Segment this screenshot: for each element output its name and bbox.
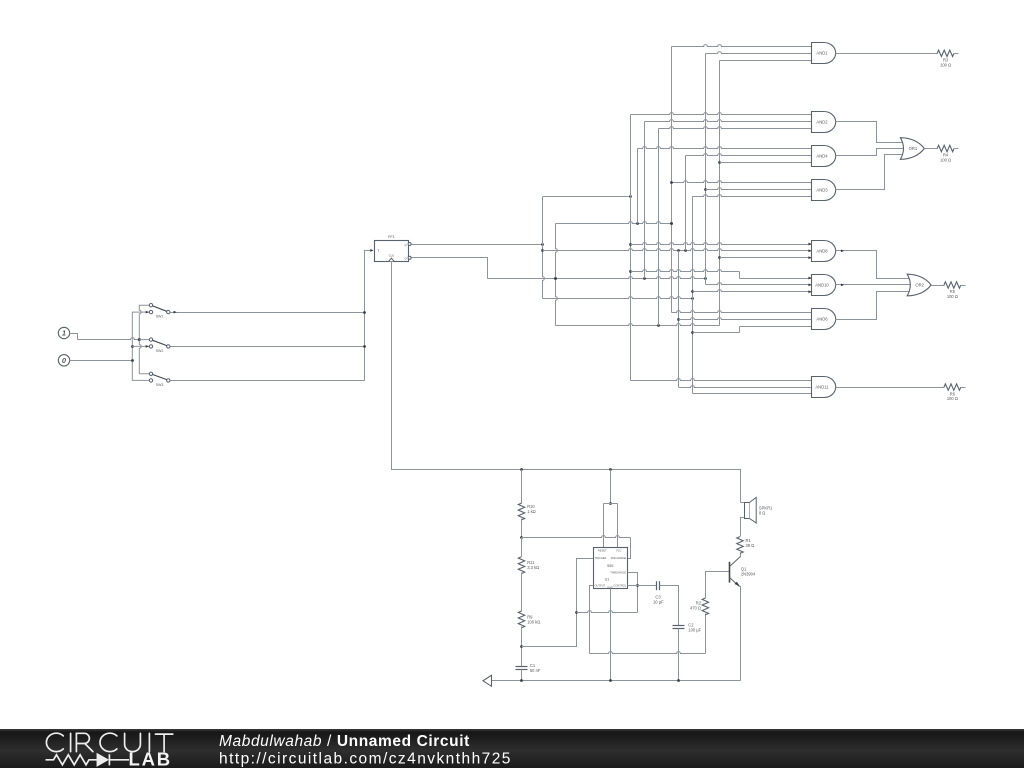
wire AND1 mid input row xyxy=(706,52,812,54)
wire row 325.9 (Q-bar low feed) xyxy=(556,324,720,326)
resistor R5 xyxy=(944,282,961,288)
wire AND4 bottom input row xyxy=(720,162,812,164)
resistor R2 xyxy=(702,598,708,615)
wire AND11 output to R6 xyxy=(836,387,945,389)
wire Q1 emitter down to ground rail xyxy=(740,587,741,681)
AND gate AND11 xyxy=(812,377,836,398)
wire AND8 mid input arrow xyxy=(808,249,811,252)
svg-text:555: 555 xyxy=(607,564,613,568)
wire Q-bar output of FF1 jog down xyxy=(412,258,488,279)
wire AND10 top input row (jogged) xyxy=(631,270,740,272)
svg-text:TRIGGER: TRIGGER xyxy=(595,556,607,560)
AND gate AND3 xyxy=(812,180,836,201)
CircuitLab logo resistor-diode glyph xyxy=(46,754,130,765)
svg-text:CONTROL: CONTROL xyxy=(614,584,627,588)
resistor R9 xyxy=(521,573,523,612)
wire column 678.6 (AND6 mid / AND11 mid feed) xyxy=(678,251,680,388)
svg-text:LAB: LAB xyxy=(129,748,172,768)
wire row 250.8 (Q to AND8 mid input) xyxy=(543,249,812,251)
wire AND1 bottom input row xyxy=(720,60,812,62)
footer bar xyxy=(0,729,1024,768)
resistor R1 xyxy=(737,537,743,554)
resistor R4 xyxy=(937,145,954,151)
svg-text:AND11: AND11 xyxy=(815,385,829,390)
transistor Q1 base bar xyxy=(729,562,731,583)
svg-text:OUTPUT: OUTPUT xyxy=(595,584,606,588)
svg-text:SW1: SW1 xyxy=(156,315,164,319)
wire row 223.4 (Q-bar top feed) xyxy=(556,222,672,224)
transistor Q1 collector stroke xyxy=(730,557,741,567)
svg-text:1 kΩ: 1 kΩ xyxy=(527,509,536,514)
wire 555 THRESHOLD drop xyxy=(628,573,638,613)
node 0 (logic-low terminal) xyxy=(58,355,69,366)
wire column 685.4 (AND4 mid feed) xyxy=(685,156,687,251)
FF1 clock wedge xyxy=(389,258,394,261)
wire AND6 top input row xyxy=(672,311,812,313)
wire AND3 top input row xyxy=(672,181,812,183)
svg-text:AND3: AND3 xyxy=(816,188,828,193)
wire AND10 mid input row xyxy=(706,283,812,285)
wire AND3 mid input row xyxy=(706,188,812,190)
svg-text:SW3: SW3 xyxy=(156,383,164,387)
svg-text:100 Ω: 100 Ω xyxy=(940,158,951,163)
wire SW2 output row xyxy=(171,346,365,348)
svg-text:10 µF: 10 µF xyxy=(653,599,664,604)
wire SW3 output row xyxy=(171,380,365,382)
wire AND6 bottom input row (jogged) xyxy=(693,332,740,334)
resistor R3 xyxy=(937,50,954,56)
AND gate AND4 xyxy=(812,146,836,167)
wire 555 OUTPUT down and east to R2 xyxy=(590,586,594,654)
svg-text:100 Ω: 100 Ω xyxy=(940,62,951,67)
wire AND3 output to OR1 bottom input xyxy=(836,155,906,190)
wire Q output of FF1 to column 542 xyxy=(412,244,543,246)
speaker SPKR1 xyxy=(741,502,745,504)
svg-text:3.3 kΩ: 3.3 kΩ xyxy=(527,565,539,570)
svg-text:SW2: SW2 xyxy=(156,349,164,353)
wire column 658.1 (AND2 bottom feed) xyxy=(658,129,660,326)
svg-text:50 nF: 50 nF xyxy=(530,668,541,673)
wire row 298 (Q low feed) xyxy=(543,297,693,299)
wire C1 bottom to ground rail xyxy=(521,670,523,681)
switch SW3 (SPDT) xyxy=(149,372,152,375)
wire 0-bus vertical (switch bottom contacts) xyxy=(132,312,149,380)
svg-text:http://circuitlab.com/cz4nvknt: http://circuitlab.com/cz4nvknthh725 xyxy=(219,750,512,767)
wire row to 555 DISCHARGE (via right drop) xyxy=(522,536,631,538)
svg-text:AND4: AND4 xyxy=(816,154,828,159)
wire column 555.4 (Q-bar riser) xyxy=(556,224,558,326)
wire R9 bottom to C1 node xyxy=(521,627,523,667)
wire AND2 top input row xyxy=(631,113,812,115)
wire AND4 top input row xyxy=(638,147,812,149)
svg-text:OR1: OR1 xyxy=(909,146,918,151)
wire Q-bar row east to column 705.9 xyxy=(488,277,706,279)
svg-text:100 Ω: 100 Ω xyxy=(947,396,958,401)
wire column 637.6 (AND4 top feed) xyxy=(637,149,639,224)
wire AND10 bottom input row xyxy=(693,290,812,292)
svg-text:AND2: AND2 xyxy=(816,120,828,125)
svg-text:1: 1 xyxy=(62,329,66,338)
AND gate AND1 xyxy=(812,43,836,64)
resistor R11 xyxy=(521,538,523,557)
svg-text:CLK: CLK xyxy=(389,254,395,258)
wire AND8 bottom input row xyxy=(720,257,812,259)
wire column 644.4 (AND2 mid feed) xyxy=(644,122,646,279)
switch SW2 (SPDT) xyxy=(149,338,152,341)
svg-text:AND10: AND10 xyxy=(815,283,829,288)
svg-text:FF1: FF1 xyxy=(388,235,395,239)
node 1 (logic-high terminal) xyxy=(58,327,69,338)
wire 1-bus vertical (switch top contacts) xyxy=(139,305,149,374)
wire AND1 top input row xyxy=(672,45,812,47)
OR gate OR1 xyxy=(900,138,924,160)
OR gate OR2 xyxy=(907,274,931,296)
wire AND1 output to R3 xyxy=(836,53,938,55)
wire 555 CONTROL to C3 xyxy=(628,585,657,587)
wire column 542 (Q riser) xyxy=(543,197,545,299)
wire R10 top lead xyxy=(521,470,523,504)
wire column 719.6 (AND1 bottom feed) xyxy=(719,61,721,326)
wire AND6 mid input row xyxy=(679,318,812,320)
wire Q1 collector to R1 xyxy=(740,553,742,557)
svg-text:DISCHARGE: DISCHARGE xyxy=(611,556,627,560)
wire AND8 output to OR2 top input xyxy=(836,251,913,279)
svg-text:U1: U1 xyxy=(605,577,610,581)
wire column 705.9 (AND1 mid to AND10 mid) xyxy=(705,54,707,285)
wire OR1 output to R4 xyxy=(925,148,938,150)
wire AND6 output to OR2 bottom input xyxy=(836,292,913,320)
FF1 Q-bar output pin circle xyxy=(408,256,411,259)
svg-text:Mabdulwahab / Unnamed Circuit: Mabdulwahab / Unnamed Circuit xyxy=(219,733,470,750)
AND gate AND6 xyxy=(812,309,836,330)
wire AND2 output to OR1 top input xyxy=(836,122,906,143)
wire R1 top to speaker bottom lead xyxy=(741,518,745,537)
svg-text:100 kΩ: 100 kΩ xyxy=(527,620,540,625)
wire R10 bottom to node xyxy=(521,519,523,538)
resistor R10 xyxy=(518,503,524,520)
svg-text:8 Ω: 8 Ω xyxy=(759,511,765,516)
ground rail xyxy=(492,680,741,682)
wire AND3 bottom input row xyxy=(693,195,812,197)
FF1 Q output pin circle xyxy=(408,243,411,246)
wire Q upper row to column 630.8 xyxy=(543,196,631,198)
svg-text:AND1: AND1 xyxy=(816,51,828,56)
wire R2 top to Q1 base xyxy=(706,572,730,599)
wire AND2 mid input row xyxy=(645,120,812,122)
svg-text:39 Ω: 39 Ω xyxy=(746,543,755,548)
wire V+ branch to 555 RESET and VCC pins xyxy=(610,470,612,504)
svg-text:100 Ω: 100 Ω xyxy=(947,294,958,299)
svg-text:RESET: RESET xyxy=(598,549,607,553)
wire AND4 mid input row xyxy=(686,154,812,156)
wire FF1 CLK net down and across to speaker xyxy=(392,262,741,503)
AND gate AND8 xyxy=(812,241,836,262)
svg-text:VCC: VCC xyxy=(616,549,622,553)
wire from node 1 to SW2 top contact xyxy=(70,334,78,340)
wire column 671.8 (AND1 top to AND6 top) xyxy=(671,47,673,313)
capacitor C3 xyxy=(656,581,658,590)
AND gate AND10 xyxy=(812,275,836,296)
svg-text:THRESHOLD: THRESHOLD xyxy=(610,570,626,574)
wire C3 to C2 drop xyxy=(660,586,679,626)
svg-text:AND6: AND6 xyxy=(816,317,828,322)
resistor R6 xyxy=(944,384,961,390)
wire node to 555 TRIGGER xyxy=(522,559,594,647)
wire AND2 bottom input row xyxy=(659,127,812,129)
svg-text:100 µF: 100 µF xyxy=(688,628,701,633)
capacitor C1 xyxy=(516,666,528,668)
svg-text:2N3904: 2N3904 xyxy=(741,572,756,577)
flip-flop FF1 body xyxy=(375,241,409,262)
ground symbol xyxy=(483,675,492,686)
svg-text:AND8: AND8 xyxy=(816,249,828,254)
wire C2 bottom to ground rail xyxy=(678,629,680,681)
wire AND11 mid input row xyxy=(679,386,812,388)
wire OR2 output to R5 xyxy=(932,285,945,287)
svg-text:OR2: OR2 xyxy=(915,283,924,288)
transistor Q1 emitter stroke with arrow xyxy=(730,578,740,587)
wire switch bus up to FF1 T input xyxy=(365,251,373,381)
wire AND4 output to OR1 mid input xyxy=(836,149,907,156)
wire AND10 output to OR2 mid input xyxy=(836,284,914,286)
wire AND11 bottom input row xyxy=(693,393,812,395)
svg-text:470 Ω: 470 Ω xyxy=(690,606,701,611)
wire SW1 output row xyxy=(171,312,365,314)
wire column 630.8 (AND2 top to AND11 top) xyxy=(630,115,632,381)
wire AND11 top input row xyxy=(631,379,812,381)
wire AND8 top input row xyxy=(631,243,812,245)
wire trigger-threshold row xyxy=(577,611,638,613)
wire from node 0 to 0-bus xyxy=(70,360,133,362)
capacitor C2 xyxy=(673,625,685,627)
wire 555 GND pin to ground rail xyxy=(610,589,612,681)
op-amp timer U1 (555) body xyxy=(594,548,628,589)
AND gate AND2 xyxy=(812,112,836,133)
CircuitLab logo text CIRCUIT (hand-drawn thin strokes) xyxy=(46,733,172,751)
wire column 692.2 (AND3 bottom to AND11 bottom) xyxy=(692,197,694,394)
switch SW1 (SPDT) xyxy=(149,304,152,307)
